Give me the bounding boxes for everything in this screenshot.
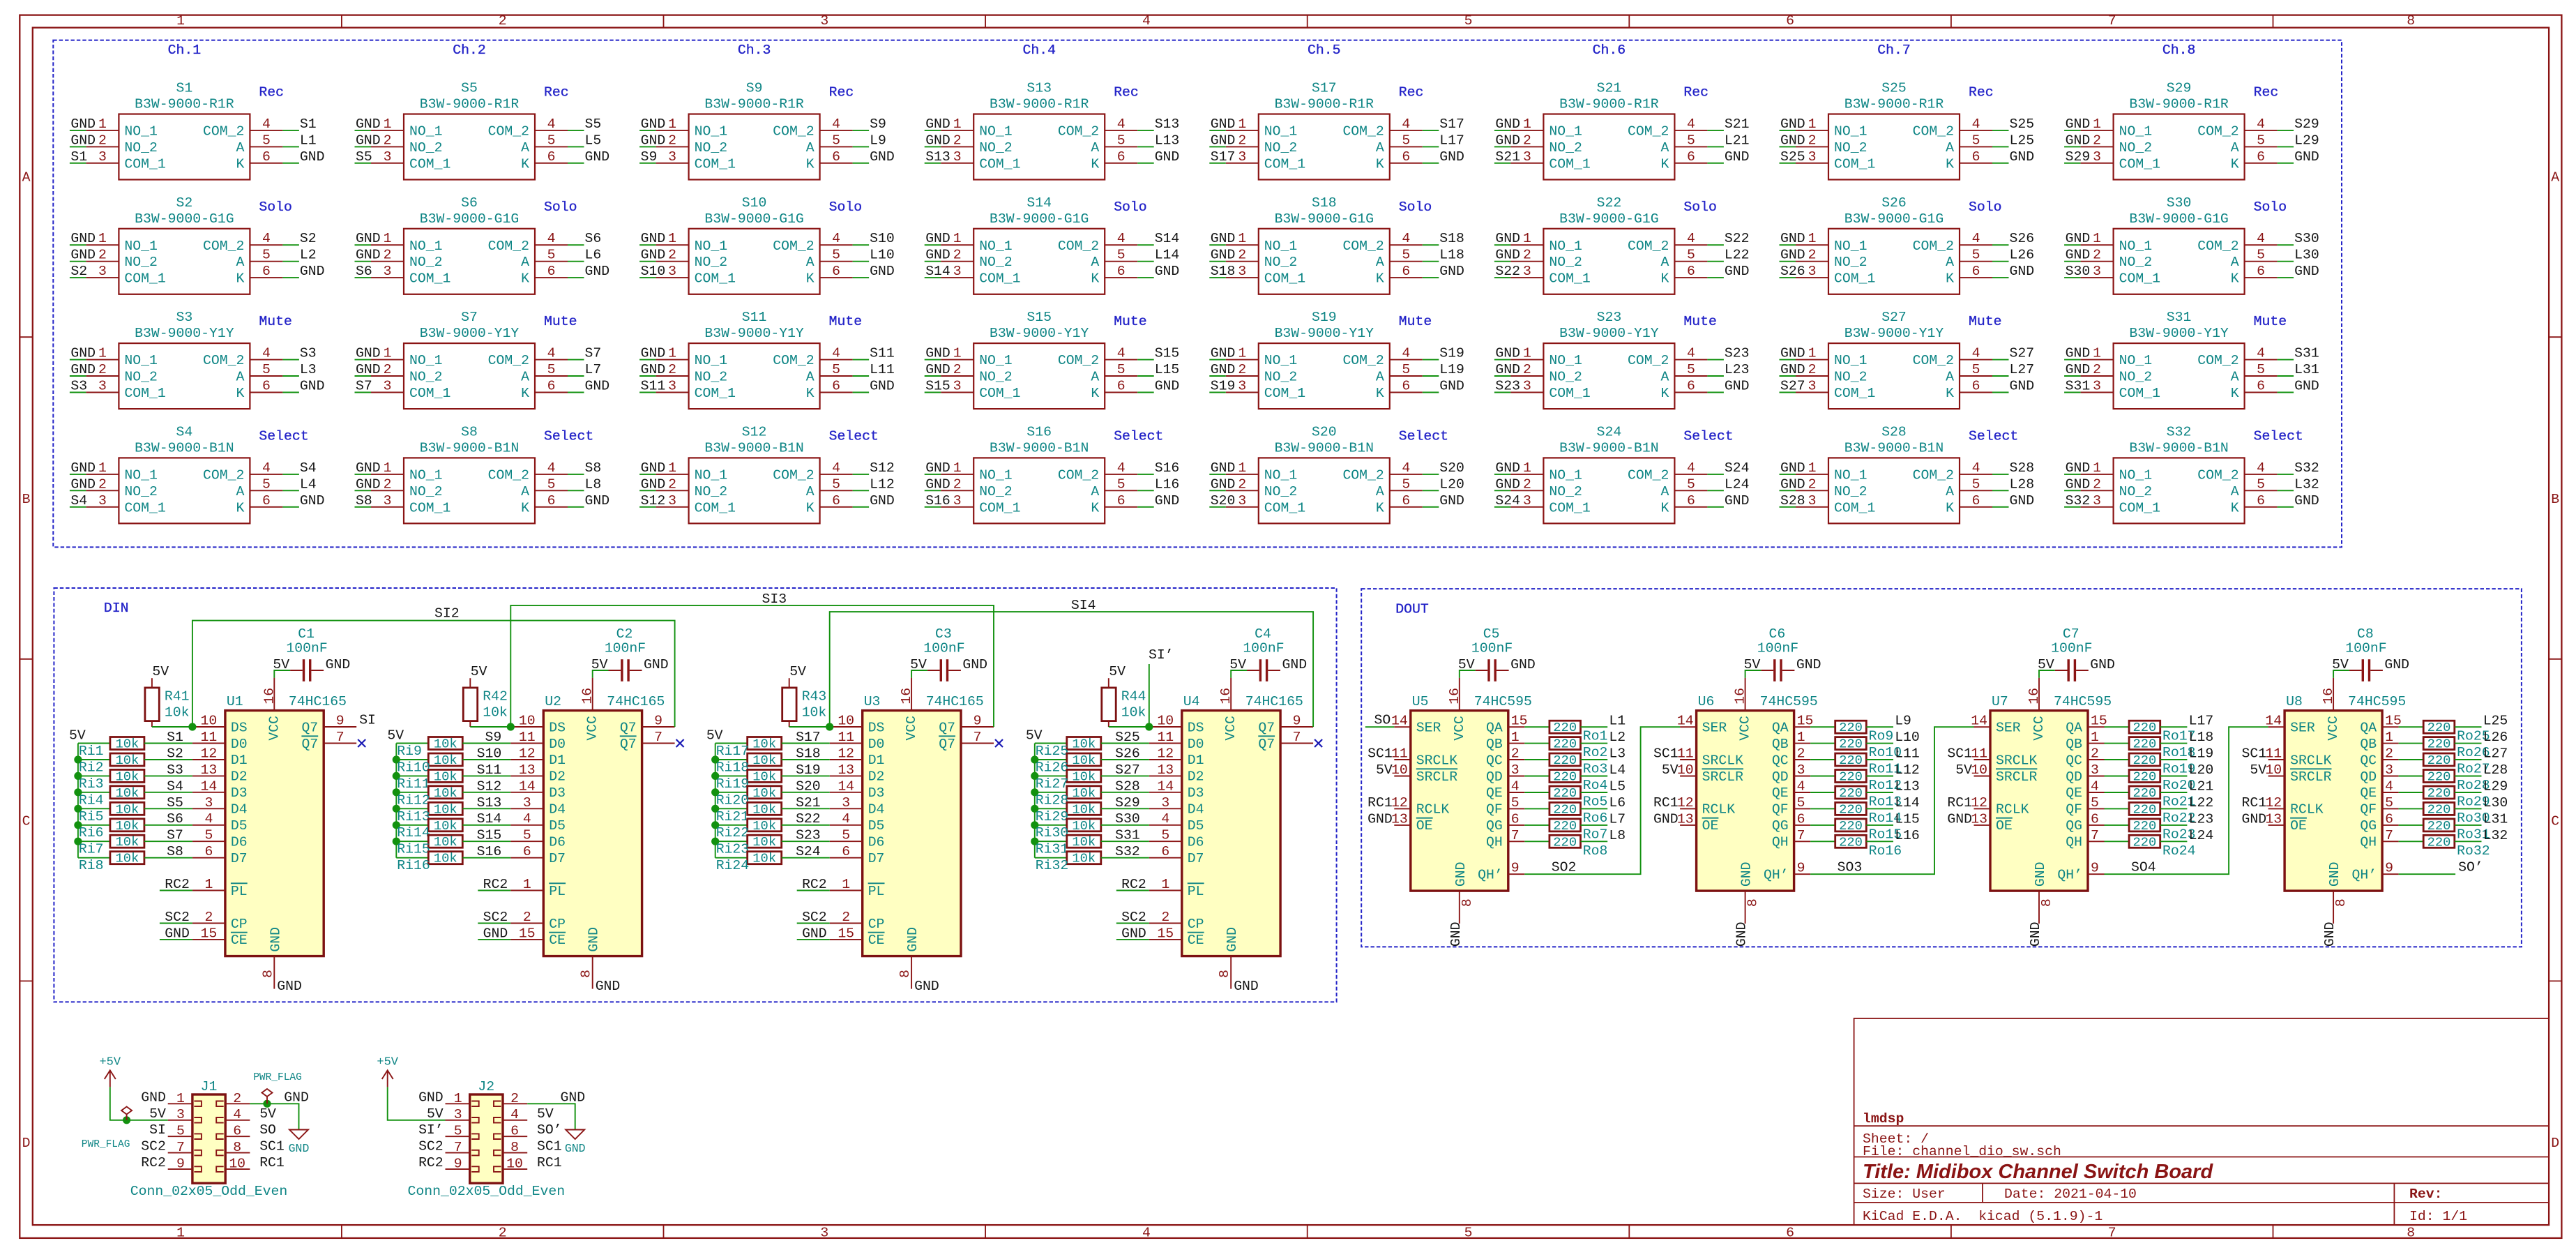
- resistor Ri10 10k: [428, 753, 462, 766]
- svg-text:GND: GND: [1796, 657, 1821, 672]
- svg-text:L14: L14: [1155, 248, 1180, 263]
- svg-text:S13: S13: [1155, 116, 1180, 132]
- svg-text:GND: GND: [2294, 264, 2319, 279]
- svg-text:8: 8: [2333, 898, 2349, 907]
- svg-text:10k: 10k: [434, 851, 457, 866]
- svg-text:7: 7: [454, 1140, 462, 1155]
- svg-text:D6: D6: [868, 835, 885, 850]
- svg-text:5: 5: [1511, 795, 1520, 811]
- svg-text:SC1: SC1: [1653, 746, 1679, 762]
- svg-text:A: A: [1091, 370, 1099, 385]
- svg-text:6: 6: [1797, 811, 1805, 827]
- svg-text:5: 5: [262, 248, 271, 263]
- svg-text:GND: GND: [925, 248, 950, 263]
- svg-text:2: 2: [1523, 476, 1531, 492]
- svg-text:4: 4: [1972, 116, 1980, 132]
- svg-text:SER: SER: [1996, 721, 2021, 736]
- svg-text:4: 4: [1402, 460, 1410, 476]
- resistor Ro22 220: [2129, 802, 2160, 815]
- svg-text:B3W-9000-B1N: B3W-9000-B1N: [990, 440, 1089, 455]
- svg-text:GND: GND: [1155, 149, 1180, 165]
- svg-text:S11: S11: [641, 379, 666, 394]
- wire Ro14 to L14: [1866, 808, 1893, 809]
- svg-text:CP: CP: [549, 917, 566, 932]
- wire Ri32 to D7: [1101, 857, 1149, 859]
- svg-text:S13: S13: [925, 149, 950, 165]
- wire Ro2 to L2: [1581, 743, 1608, 744]
- svg-text:GND: GND: [905, 927, 920, 952]
- svg-text:NO_1: NO_1: [2119, 239, 2152, 254]
- svg-text:2: 2: [953, 362, 962, 377]
- svg-text:Date: 2021-04-10: Date: 2021-04-10: [2004, 1187, 2137, 1202]
- svg-text:GND: GND: [70, 460, 96, 476]
- svg-text:1: 1: [1808, 460, 1817, 476]
- svg-text:COM_2: COM_2: [1913, 123, 1954, 139]
- svg-text:VCC: VCC: [266, 716, 282, 741]
- resistor Ri25 10k: [1067, 737, 1101, 750]
- switch S27: [1780, 343, 2009, 409]
- svg-text:9: 9: [454, 1157, 462, 1172]
- svg-text:S21: S21: [1725, 116, 1750, 132]
- resistor R42 10k: [463, 688, 477, 727]
- svg-text:4: 4: [842, 811, 850, 827]
- svg-text:1: 1: [1808, 116, 1817, 132]
- wire RC2 U3: [797, 890, 830, 891]
- wire Ri24 to D7: [782, 857, 830, 859]
- svg-text:S12: S12: [870, 460, 895, 476]
- svg-text:L28: L28: [2010, 476, 2035, 492]
- ic U3 74HC165: [830, 678, 994, 989]
- wire Ro31 to L31: [2455, 824, 2482, 826]
- svg-text:SI: SI: [149, 1122, 166, 1138]
- svg-text:6: 6: [842, 844, 850, 859]
- svg-text:COM_1: COM_1: [695, 386, 736, 401]
- switch S8: [355, 458, 584, 523]
- resistor Ro2 220: [1550, 737, 1581, 750]
- svg-text:5V: 5V: [2332, 657, 2349, 672]
- svg-text:NO_2: NO_2: [979, 140, 1012, 156]
- svg-text:B3W-9000-Y1Y: B3W-9000-Y1Y: [135, 326, 234, 341]
- ic U4 74HC165: [1149, 678, 1313, 989]
- svg-text:3: 3: [1808, 264, 1817, 279]
- svg-text:S26: S26: [1780, 264, 1805, 279]
- svg-text:GND: GND: [2294, 493, 2319, 509]
- svg-text:SC2: SC2: [165, 910, 190, 925]
- svg-text:2: 2: [668, 362, 676, 377]
- svg-text:2: 2: [98, 476, 107, 492]
- svg-text:C6: C6: [1769, 626, 1786, 642]
- svg-text:Ri32: Ri32: [1036, 858, 1068, 873]
- svg-text:GND: GND: [70, 116, 96, 132]
- svg-text:COM_2: COM_2: [773, 123, 814, 139]
- svg-text:NO_1: NO_1: [979, 239, 1012, 254]
- svg-text:S27: S27: [2010, 346, 2035, 361]
- resistor Ri16 10k: [428, 852, 462, 864]
- svg-text:NO_2: NO_2: [1264, 255, 1297, 270]
- svg-text:2: 2: [499, 1225, 507, 1240]
- svg-text:GND: GND: [1725, 264, 1750, 279]
- svg-text:Ri22: Ri22: [716, 825, 749, 841]
- svg-text:Rec: Rec: [544, 85, 569, 100]
- svg-text:QE: QE: [2360, 785, 2377, 801]
- svg-text:Select: Select: [1969, 428, 2018, 444]
- wire Ro20 to L20: [2160, 776, 2188, 777]
- svg-text:B3W-9000-R1R: B3W-9000-R1R: [1844, 97, 1944, 112]
- svg-text:COM_2: COM_2: [1058, 239, 1099, 254]
- svg-text:S23: S23: [1725, 346, 1750, 361]
- svg-text:NO_2: NO_2: [1264, 370, 1297, 385]
- wire Ro8 to L8: [1581, 841, 1608, 842]
- svg-text:6: 6: [262, 379, 271, 394]
- svg-text:Solo: Solo: [544, 199, 577, 215]
- wire R44 to DS: [1109, 726, 1149, 728]
- svg-text:A: A: [521, 255, 529, 270]
- svg-text:3: 3: [98, 493, 107, 509]
- svg-text:7: 7: [336, 730, 344, 745]
- switch S7: [355, 343, 584, 409]
- svg-text:12: 12: [838, 746, 854, 762]
- svg-text:S30: S30: [1115, 811, 1140, 827]
- svg-text:10k: 10k: [1072, 769, 1096, 784]
- svg-text:1: 1: [1523, 346, 1531, 361]
- svg-text:OE: OE: [1416, 818, 1433, 834]
- svg-text:NO_2: NO_2: [1549, 370, 1582, 385]
- svg-text:U1: U1: [227, 694, 243, 709]
- svg-text:1: 1: [98, 460, 107, 476]
- resistor Ro16 220: [1835, 835, 1867, 848]
- svg-text:2: 2: [2093, 362, 2101, 377]
- svg-text:L27: L27: [2010, 362, 2035, 377]
- svg-text:GND: GND: [1439, 493, 1464, 509]
- svg-text:3: 3: [1238, 264, 1246, 279]
- svg-text:2: 2: [204, 910, 213, 925]
- svg-text:2: 2: [1797, 746, 1805, 762]
- svg-text:SRCLK: SRCLK: [1416, 753, 1457, 768]
- svg-text:6: 6: [523, 844, 531, 859]
- wire Ri8 to D7: [144, 857, 192, 859]
- svg-text:Ri4: Ri4: [79, 792, 104, 808]
- svg-text:GND: GND: [870, 493, 895, 509]
- svg-text:S8: S8: [356, 493, 372, 509]
- svg-text:3: 3: [1797, 762, 1805, 778]
- svg-text:B3W-9000-B1N: B3W-9000-B1N: [420, 440, 519, 455]
- svg-text:K: K: [1376, 271, 1384, 287]
- svg-text:K: K: [806, 156, 815, 172]
- svg-text:DIN: DIN: [104, 601, 129, 616]
- svg-text:D5: D5: [1188, 818, 1204, 834]
- svg-text:GND: GND: [585, 149, 610, 165]
- svg-text:5: 5: [1402, 248, 1410, 263]
- svg-text:GND: GND: [300, 264, 325, 279]
- svg-text:4: 4: [2257, 231, 2265, 246]
- wire VCC to C8: [2333, 670, 2349, 678]
- svg-text:16: 16: [262, 688, 277, 705]
- svg-text:GND: GND: [1947, 811, 1972, 827]
- svg-text:D4: D4: [1188, 802, 1204, 818]
- wire QH pin to Ro24: [2105, 841, 2130, 842]
- svg-text:S10: S10: [477, 746, 502, 762]
- svg-text:12: 12: [1677, 795, 1694, 811]
- svg-text:B3W-9000-G1G: B3W-9000-G1G: [135, 211, 234, 227]
- svg-text:11: 11: [1391, 746, 1408, 762]
- svg-text:K: K: [521, 156, 529, 172]
- svg-text:QC: QC: [1772, 753, 1789, 768]
- switch S13: [925, 114, 1154, 180]
- wire SC2 U1: [160, 923, 192, 924]
- svg-text:5: 5: [547, 248, 556, 263]
- wire Ri23 to D6: [782, 841, 830, 842]
- svg-text:74HC165: 74HC165: [607, 694, 665, 709]
- svg-text:S4: S4: [167, 778, 183, 794]
- svg-text:S31: S31: [1115, 828, 1140, 843]
- resistor Ro32 220: [2423, 835, 2455, 848]
- svg-text:3: 3: [98, 264, 107, 279]
- svg-text:U7: U7: [1992, 694, 2008, 709]
- svg-text:220: 220: [2132, 818, 2156, 834]
- svg-text:S13: S13: [477, 795, 502, 811]
- svg-text:A: A: [1091, 484, 1099, 499]
- svg-text:D: D: [22, 1136, 31, 1151]
- svg-text:GND: GND: [962, 657, 987, 672]
- svg-text:Conn_02x05_Odd_Even: Conn_02x05_Odd_Even: [408, 1184, 566, 1199]
- svg-text:COM_2: COM_2: [2197, 467, 2238, 483]
- svg-text:RC1: RC1: [259, 1155, 285, 1170]
- svg-text:J1: J1: [201, 1079, 218, 1094]
- svg-text:B3W-9000-Y1Y: B3W-9000-Y1Y: [1844, 326, 1944, 341]
- svg-text:Ri7: Ri7: [79, 842, 104, 857]
- resistor Ri31 10k: [1067, 835, 1101, 848]
- svg-text:Ch.2: Ch.2: [453, 43, 485, 58]
- svg-text:74HC595: 74HC595: [1474, 694, 1532, 709]
- svg-text:S20: S20: [1439, 460, 1464, 476]
- svg-text:U2: U2: [545, 694, 561, 709]
- svg-text:Conn_02x05_Odd_Even: Conn_02x05_Odd_Even: [130, 1184, 288, 1199]
- svg-text:COM_1: COM_1: [1264, 156, 1305, 172]
- svg-text:5: 5: [1972, 133, 1980, 148]
- switch S21: [1494, 114, 1724, 180]
- svg-text:13: 13: [1391, 811, 1408, 827]
- svg-text:9: 9: [654, 714, 662, 729]
- svg-text:GND: GND: [1439, 379, 1464, 394]
- wire QH pin to Ro30: [2399, 808, 2424, 809]
- resistor Ri1 10k: [110, 737, 144, 750]
- svg-text:5V: 5V: [1109, 664, 1126, 679]
- svg-text:4: 4: [1687, 116, 1695, 132]
- svg-text:220: 220: [2427, 785, 2451, 801]
- svg-text:8: 8: [1745, 898, 1761, 907]
- svg-text:Ch.8: Ch.8: [2162, 43, 2195, 58]
- wire Ri12 to D3: [462, 792, 510, 793]
- svg-text:VCC: VCC: [1738, 716, 1753, 741]
- svg-text:5V: 5V: [149, 1106, 166, 1122]
- svg-text:Ri2: Ri2: [79, 760, 104, 776]
- svg-text:QE: QE: [1772, 785, 1789, 801]
- svg-text:COM_2: COM_2: [203, 353, 244, 368]
- svg-text:S18: S18: [1211, 264, 1236, 279]
- svg-text:220: 220: [1839, 818, 1863, 834]
- svg-text:4: 4: [1687, 460, 1695, 476]
- svg-text:Ri3: Ri3: [79, 776, 104, 792]
- resistor Ri27 10k: [1067, 769, 1101, 782]
- svg-text:L22: L22: [2189, 795, 2214, 811]
- svg-text:NO_2: NO_2: [2119, 140, 2152, 156]
- svg-text:GND: GND: [2010, 493, 2035, 509]
- no-connect pin7 U4: [1314, 739, 1322, 747]
- svg-text:13: 13: [838, 762, 854, 778]
- svg-text:2: 2: [1238, 476, 1246, 492]
- svg-text:A: A: [521, 370, 529, 385]
- svg-text:9: 9: [176, 1157, 185, 1172]
- svg-text:S16: S16: [477, 844, 502, 859]
- svg-text:S24: S24: [796, 844, 821, 859]
- svg-text:SC2: SC2: [141, 1139, 166, 1154]
- svg-text:S20: S20: [1312, 424, 1337, 439]
- wire Ri13 to D4: [462, 808, 510, 809]
- svg-text:S19: S19: [1211, 379, 1236, 394]
- svg-text:Ri15: Ri15: [397, 842, 430, 857]
- svg-text:VCC: VCC: [904, 716, 919, 741]
- svg-text:6: 6: [1687, 264, 1695, 279]
- capacitor C2 100nF: [609, 659, 642, 682]
- power 5V above R43: [789, 664, 806, 688]
- svg-text:S25: S25: [1115, 730, 1140, 745]
- svg-text:1: 1: [953, 116, 962, 132]
- svg-text:GND: GND: [141, 1090, 166, 1105]
- svg-text:COM_2: COM_2: [773, 467, 814, 483]
- frame column ticks: [342, 15, 2273, 1238]
- wire Ri26 to D1: [1101, 759, 1149, 760]
- wire QH pin to Ro28: [2399, 776, 2424, 777]
- svg-text:SC1: SC1: [1367, 746, 1393, 762]
- wire Ri30 to D5: [1101, 824, 1149, 826]
- svg-text:S9: S9: [641, 149, 658, 165]
- svg-text:4: 4: [262, 231, 271, 246]
- svg-text:D7: D7: [1188, 851, 1204, 866]
- svg-text:2: 2: [1808, 133, 1817, 148]
- svg-text:3: 3: [204, 795, 213, 811]
- svg-text:Q7: Q7: [1258, 720, 1275, 735]
- svg-text:S20: S20: [796, 778, 821, 794]
- svg-text:NO_2: NO_2: [124, 370, 157, 385]
- svg-text:K: K: [1946, 386, 1954, 401]
- svg-text:6: 6: [204, 844, 213, 859]
- svg-text:A: A: [1376, 484, 1384, 499]
- svg-text:1: 1: [953, 231, 962, 246]
- svg-text:K: K: [806, 386, 815, 401]
- svg-text:1: 1: [1238, 116, 1246, 132]
- svg-text:SO3: SO3: [1838, 860, 1863, 875]
- svg-text:220: 220: [2132, 737, 2156, 752]
- switch S23: [1494, 343, 1724, 409]
- svg-text:U3: U3: [864, 694, 881, 709]
- svg-text:6: 6: [547, 264, 556, 279]
- svg-text:5: 5: [262, 362, 271, 377]
- svg-text:L23: L23: [2189, 811, 2214, 827]
- svg-text:5V: 5V: [471, 664, 487, 679]
- svg-text:L14: L14: [1895, 795, 1920, 811]
- wire SC2 U4: [1116, 923, 1149, 924]
- svg-text:B3W-9000-B1N: B3W-9000-B1N: [135, 440, 234, 455]
- svg-text:QA: QA: [2360, 721, 2377, 736]
- svg-text:B3W-9000-G1G: B3W-9000-G1G: [2129, 211, 2228, 227]
- svg-text:3: 3: [820, 1225, 828, 1240]
- svg-text:Q7: Q7: [301, 737, 318, 752]
- svg-text:4: 4: [233, 1107, 241, 1122]
- svg-text:NO_1: NO_1: [409, 123, 442, 139]
- wire Ro12 to L12: [1866, 776, 1893, 777]
- wire SI4 net U4.Q7 to U3.DS: [830, 612, 1313, 727]
- svg-text:5V: 5V: [1955, 762, 1972, 778]
- resistor Ro24 220: [2129, 835, 2160, 848]
- resistor Ri26 10k: [1067, 753, 1101, 766]
- resistor Ro19 220: [2129, 753, 2160, 766]
- svg-text:5V: 5V: [1026, 728, 1043, 744]
- capacitor C5 100nF: [1476, 659, 1509, 682]
- junction 5V bus U4 row 4: [1031, 805, 1038, 813]
- svg-text:GND: GND: [1780, 346, 1805, 361]
- svg-text:4: 4: [262, 116, 271, 132]
- svg-text:220: 220: [2427, 720, 2451, 735]
- svg-text:L13: L13: [1895, 779, 1920, 795]
- svg-text:GND: GND: [483, 926, 508, 941]
- svg-text:S17: S17: [1439, 116, 1464, 132]
- DOUT sheet outline: [1361, 589, 2522, 947]
- svg-text:3: 3: [98, 149, 107, 165]
- resistor Ri11 10k: [428, 769, 462, 782]
- svg-text:Ro8: Ro8: [1583, 843, 1608, 859]
- svg-text:L26: L26: [2010, 248, 2035, 263]
- switch S19: [1209, 343, 1439, 409]
- svg-text:10k: 10k: [115, 769, 139, 784]
- svg-text:SI3: SI3: [762, 592, 787, 607]
- svg-text:6: 6: [2257, 264, 2265, 279]
- svg-text:GND: GND: [2066, 116, 2091, 132]
- svg-text:6: 6: [1402, 493, 1410, 509]
- svg-text:14: 14: [519, 778, 536, 794]
- svg-text:RC2: RC2: [418, 1155, 444, 1170]
- svg-text:NO_1: NO_1: [979, 353, 1012, 368]
- svg-text:1: 1: [2093, 116, 2101, 132]
- svg-text:15: 15: [201, 926, 218, 941]
- svg-text:NO_2: NO_2: [1264, 140, 1297, 156]
- svg-text:6: 6: [1402, 149, 1410, 165]
- svg-text:S9: S9: [746, 81, 763, 96]
- svg-text:VCC: VCC: [585, 716, 600, 741]
- svg-text:COM_1: COM_1: [409, 500, 450, 515]
- switch S3: [70, 343, 299, 409]
- svg-text:NO_1: NO_1: [1834, 123, 1867, 139]
- svg-text:A: A: [22, 170, 31, 185]
- wire QH pin to Ro16: [1810, 841, 1835, 842]
- svg-text:L13: L13: [1155, 133, 1180, 148]
- svg-text:K: K: [1661, 500, 1669, 515]
- svg-text:7: 7: [973, 730, 982, 745]
- svg-text:Title: Midibox Channel Switch: Title: Midibox Channel Switch Board: [1863, 1161, 2213, 1183]
- wire R41 to DS: [152, 726, 192, 728]
- svg-text:10k: 10k: [1072, 818, 1096, 834]
- svg-text:NO_2: NO_2: [695, 484, 727, 499]
- svg-text:COM_1: COM_1: [2119, 156, 2160, 172]
- svg-text:7: 7: [176, 1140, 185, 1155]
- svg-text:D1: D1: [549, 753, 566, 768]
- svg-text:L32: L32: [2294, 476, 2319, 492]
- svg-text:L7: L7: [1609, 811, 1626, 827]
- svg-text:2: 2: [1808, 476, 1817, 492]
- svg-text:10k: 10k: [1121, 705, 1146, 720]
- svg-text:3: 3: [668, 493, 676, 509]
- svg-text:QH’: QH’: [2351, 868, 2377, 883]
- svg-text:COM_2: COM_2: [203, 123, 244, 139]
